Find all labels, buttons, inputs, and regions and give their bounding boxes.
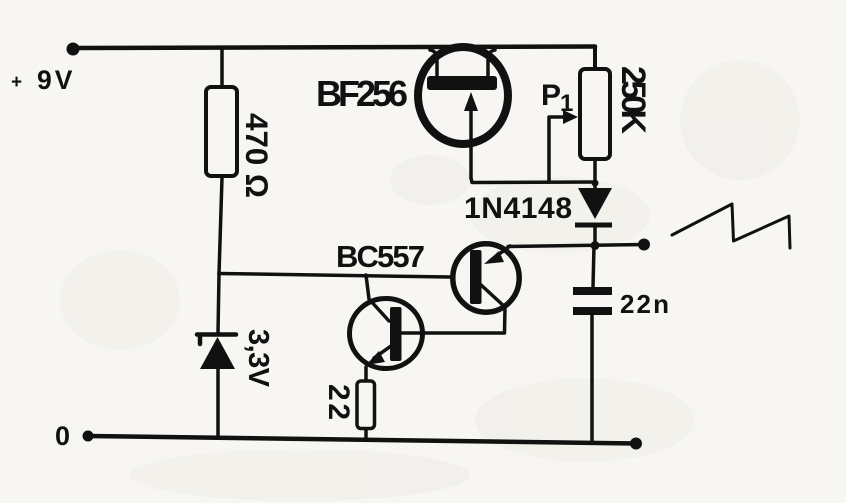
wire resistor 470 bottom to node A: [219, 178, 222, 274]
label 0: [55, 421, 70, 451]
zener diode D2 3.3V anode triangle: [200, 337, 235, 369]
wire T3 emitter to resistor 22: [364, 367, 368, 379]
wire output node: [508, 245, 644, 247]
capacitor C1 22n bottom plate: [573, 307, 612, 315]
transistor T3 base bar: [390, 307, 402, 361]
wire P1 bottom to diode node: [593, 161, 597, 183]
zener diode D2 3.3V cathode bar: [197, 335, 236, 345]
label +9V: [11, 65, 75, 95]
node ground rail end dot: [630, 438, 642, 450]
wire node A down to zener: [218, 274, 219, 333]
wire rail corner down to P1 top: [593, 47, 597, 68]
wire rail to resistor 470: [220, 48, 224, 85]
label 1N4148: [464, 192, 572, 225]
label P1: [541, 79, 573, 117]
wire +9V top rail: [74, 47, 595, 49]
diode D1 1N4148 cathode bar: [575, 223, 612, 228]
svg-text:P: P: [541, 79, 561, 112]
transistor T2 BC557 circle: [453, 244, 519, 312]
transistor T2 base bar: [470, 250, 482, 304]
svg-text:0: 0: [55, 421, 70, 451]
wire diode cathode to output node: [593, 225, 597, 245]
svg-text:9V: 9V: [37, 65, 75, 95]
node +9V terminal dot: [67, 43, 80, 56]
node output junction dot: [591, 241, 600, 250]
svg-text:22n: 22n: [620, 289, 669, 319]
transistor T3 collector to node A wire: [366, 275, 389, 321]
transistor T1 channel bar: [427, 76, 497, 90]
label 470 ohm: [239, 113, 275, 198]
svg-text:470 Ω: 470 Ω: [239, 113, 275, 198]
svg-text:+: +: [11, 72, 22, 93]
wire zener to ground rail: [216, 369, 220, 438]
wire node A to BC557 base: [219, 274, 450, 278]
transistor T2 emitter with arrow: [490, 246, 510, 261]
resistor R2 22 ohm body: [357, 381, 375, 429]
label 22: [322, 384, 355, 420]
capacitor C1 22n top lead: [593, 246, 594, 287]
svg-text:BC557: BC557: [336, 239, 425, 274]
transistor T2 collector: [401, 284, 505, 333]
resistor R1 470 ohm body: [206, 87, 237, 176]
svg-text:3,3V: 3,3V: [242, 329, 274, 388]
svg-text:250K: 250K: [614, 66, 652, 134]
transistor T1 gate arrow: [469, 108, 473, 178]
label 22n: [620, 289, 669, 319]
capacitor C1 22n top plate: [573, 287, 612, 295]
node 0 terminal dot: [83, 431, 94, 442]
transistor T1 source lead: [488, 50, 495, 78]
label BC557: [336, 239, 425, 274]
wire gate node to diode node: [471, 178, 595, 183]
potentiometer P1 250K body: [580, 69, 610, 159]
transistor T1 drain lead: [430, 50, 437, 78]
potentiometer P1 wiper arrow: [549, 117, 568, 182]
label BF256: [316, 73, 408, 114]
transistor T1 BF256 circle: [418, 47, 508, 144]
label 3,3V: [242, 329, 274, 388]
transistor T3 circle: [350, 299, 423, 369]
wire ground rail 0: [88, 436, 636, 444]
diode D1 1N4148 anode triangle: [578, 188, 612, 219]
node output end dot: [638, 239, 650, 251]
svg-text:1N4148: 1N4148: [464, 192, 572, 225]
sawtooth waveform symbol: [672, 204, 790, 248]
svg-text:1: 1: [560, 90, 573, 117]
label 250K: [614, 66, 652, 134]
transistor T3 emitter with arrow: [374, 346, 391, 358]
svg-text:BF256: BF256: [316, 73, 408, 114]
wire resistor 22 to ground rail: [364, 430, 368, 439]
capacitor C1 22n bottom lead: [590, 315, 594, 443]
node gate junction dot: [592, 180, 599, 187]
